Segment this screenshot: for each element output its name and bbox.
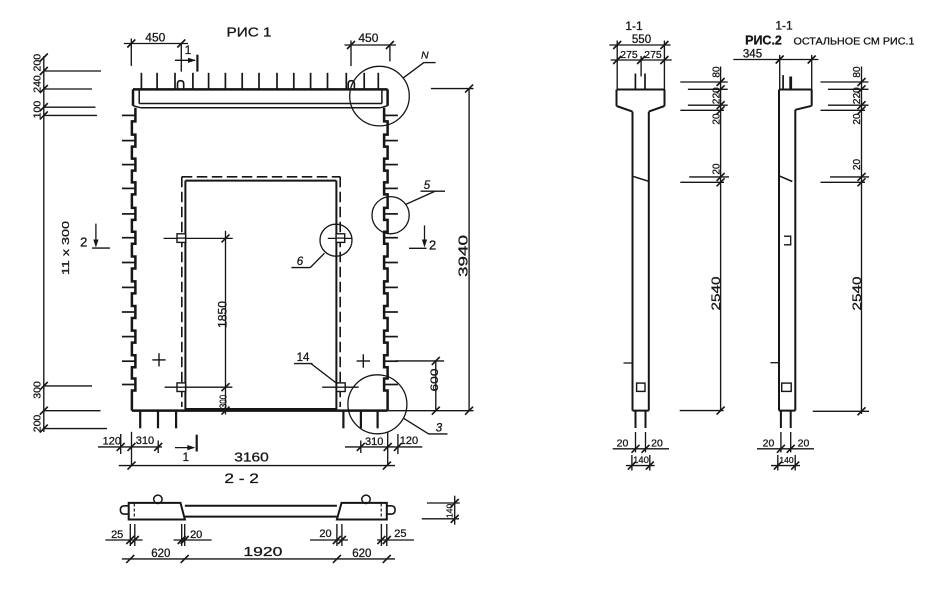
svg-text:300: 300	[32, 381, 44, 399]
svg-text:200: 200	[32, 415, 44, 433]
svg-text:20: 20	[798, 438, 810, 450]
svg-text:20: 20	[711, 163, 722, 175]
svg-text:ОСТАЛЬНОЕ СМ РИС.1: ОСТАЛЬНОЕ СМ РИС.1	[794, 37, 915, 48]
svg-text:20: 20	[852, 159, 863, 171]
svg-text:140: 140	[444, 504, 454, 518]
svg-text:300: 300	[218, 394, 229, 408]
svg-text:220: 220	[711, 87, 722, 104]
svg-text:25: 25	[394, 528, 406, 540]
svg-text:275: 275	[644, 49, 662, 61]
svg-text:20: 20	[651, 438, 663, 450]
svg-text:1-1: 1-1	[625, 19, 643, 33]
svg-text:РИС.2: РИС.2	[745, 34, 782, 48]
svg-text:РИС 1: РИС 1	[227, 25, 272, 40]
svg-text:1850: 1850	[215, 301, 229, 328]
svg-text:20: 20	[852, 113, 863, 125]
svg-text:20: 20	[763, 438, 775, 450]
svg-text:140: 140	[779, 455, 793, 465]
svg-text:620: 620	[352, 548, 371, 560]
svg-text:14: 14	[297, 352, 310, 364]
svg-text:20: 20	[617, 438, 629, 450]
svg-text:600: 600	[429, 369, 441, 392]
svg-text:120: 120	[400, 435, 418, 447]
svg-text:2540: 2540	[850, 276, 864, 310]
svg-text:3940: 3940	[456, 235, 471, 277]
svg-text:275: 275	[620, 49, 638, 61]
svg-text:200: 200	[32, 54, 44, 72]
svg-text:240: 240	[32, 75, 44, 93]
svg-text:310: 310	[136, 435, 154, 447]
svg-text:2540: 2540	[709, 276, 723, 310]
svg-text:20: 20	[190, 529, 202, 541]
svg-text:1: 1	[183, 452, 189, 464]
svg-text:550: 550	[632, 34, 651, 46]
svg-text:2: 2	[429, 238, 436, 253]
svg-text:20: 20	[711, 113, 722, 125]
svg-text:310: 310	[365, 436, 383, 448]
svg-text:220: 220	[852, 87, 863, 104]
svg-text:1: 1	[185, 45, 191, 57]
svg-text:620: 620	[151, 548, 170, 560]
svg-text:1920: 1920	[243, 545, 282, 559]
svg-text:5: 5	[424, 180, 431, 192]
svg-text:100: 100	[32, 101, 44, 119]
svg-text:450: 450	[145, 31, 165, 45]
svg-text:20: 20	[319, 528, 331, 540]
svg-text:80: 80	[711, 66, 722, 78]
svg-text:11 x 300: 11 x 300	[60, 221, 72, 275]
svg-text:2 - 2: 2 - 2	[224, 470, 259, 486]
svg-text:80: 80	[852, 66, 863, 78]
svg-text:3: 3	[436, 422, 443, 434]
svg-text:345: 345	[743, 49, 762, 61]
svg-text:450: 450	[358, 31, 378, 45]
svg-text:140: 140	[633, 455, 649, 466]
svg-text:120: 120	[103, 436, 121, 448]
svg-text:1-1: 1-1	[775, 19, 793, 33]
svg-text:2: 2	[80, 235, 87, 250]
svg-text:N: N	[421, 49, 429, 61]
svg-text:25: 25	[111, 529, 123, 541]
svg-text:6: 6	[297, 256, 304, 268]
svg-text:3160: 3160	[234, 451, 269, 465]
